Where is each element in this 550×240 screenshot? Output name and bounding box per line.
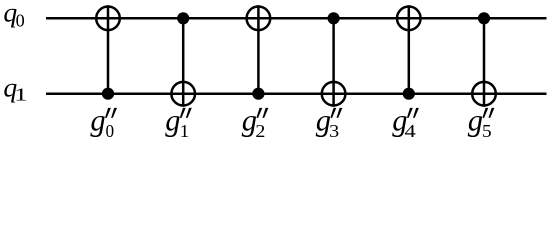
svg-text:5: 5 (482, 121, 492, 141)
svg-text:g: g (468, 103, 483, 137)
svg-text:0: 0 (106, 121, 115, 141)
svg-text:3: 3 (329, 121, 339, 141)
svg-text:4: 4 (405, 121, 417, 141)
svg-text:0: 0 (16, 11, 25, 31)
svg-text:g: g (165, 103, 180, 137)
svg-text:g: g (90, 103, 105, 137)
svg-text:2: 2 (255, 121, 265, 141)
svg-text:1: 1 (180, 121, 190, 141)
svg-text:1: 1 (14, 85, 27, 105)
